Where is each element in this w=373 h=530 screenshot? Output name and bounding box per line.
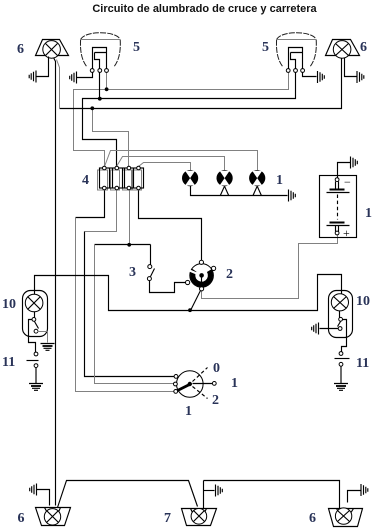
lamp 10R tail lamp unit (329, 291, 353, 338)
label 5 headlight 5L (133, 40, 140, 55)
wire fuse F1 to indicator lamp L3 (105, 151, 258, 171)
ground chassis lamp 7 (216, 485, 223, 497)
label 1 ignition switch (185, 404, 192, 419)
dimmer switch 2 rotary (186, 260, 216, 291)
svg-text:2: 2 (226, 267, 233, 282)
svg-text:1: 1 (231, 376, 238, 391)
wire lamp 10L switch to pushbutton 11L (29, 320, 36, 353)
wire lamp 6TL gray drop to bus3 (57, 60, 60, 109)
indicator lamp L3 (249, 170, 265, 186)
label + battery positive (343, 226, 350, 240)
junction right-terminal/bus1 (105, 87, 109, 91)
svg-text:2: 2 (212, 393, 219, 408)
svg-text:6: 6 (17, 42, 24, 57)
wire battery positive to dimmer switch 2 bottom (202, 235, 338, 299)
label 7 lamp 7 (164, 511, 171, 526)
wire headlight 5L middle terminal drop (99, 73, 101, 99)
wire dimmer switch 2 bottom diagonal to lamp10 bus (191, 289, 202, 311)
wire pushbutton 11L to ground (35, 368, 37, 384)
wire battery negative to ground (338, 163, 351, 178)
wire lamp 6BL to ground (37, 490, 50, 506)
wire indicator lamps common to ground (191, 186, 288, 196)
ground chassis headlight 5R (318, 71, 325, 83)
wire bus3 position lamps (lamp 6TL to lamp 6TR) (60, 59, 342, 109)
ignition light switch 1 (174, 368, 217, 399)
svg-text:1: 1 (185, 404, 192, 419)
svg-text:1: 1 (276, 173, 283, 188)
lamp 6TL front position lamp (36, 40, 69, 59)
svg-text:4: 4 (82, 173, 89, 188)
switch 3 (147, 265, 154, 281)
junction F3/node (127, 243, 131, 247)
wire lamp 6TL to ground (37, 57, 49, 77)
wire headlight 5R to ground (303, 73, 317, 77)
svg-text:5: 5 (262, 40, 269, 55)
wire node to switch 3 (150, 245, 152, 265)
wire lamp 10L switch to ground (38, 332, 48, 343)
wire bus1 high-beam (left feed to fuse F1, right to headlight 5R) (74, 73, 289, 167)
label 1 indicator lamps (276, 173, 283, 188)
ground chassis indicator lamps (289, 190, 296, 202)
lamp 6TR front position lamp (326, 40, 360, 59)
label 1 ignition position 1 (231, 376, 238, 391)
wire headlight 5L to ground (77, 73, 93, 78)
junction bus3/F3 (90, 106, 94, 110)
label 4 fuse box (82, 173, 89, 188)
headlight 5L twin-filament (80, 33, 120, 73)
wire fuse F1 bottom to ignition switch terminal 3 (76, 190, 174, 392)
ground chassis lamp 6TR (357, 71, 364, 83)
label 1 battery (365, 206, 372, 221)
wire fuse F4 bottom to dimmer switch 2 top (139, 190, 202, 261)
svg-text:5: 5 (133, 40, 140, 55)
svg-text:1: 1 (365, 206, 372, 221)
label - battery negative (344, 175, 351, 189)
svg-text:7: 7 (164, 511, 171, 526)
svg-text:11: 11 (356, 356, 369, 371)
lamp 10L tail lamp unit (23, 291, 48, 337)
wire lamp 7 right feed (203, 481, 205, 509)
wire fuse F2 to indicator lamp L2 (117, 157, 225, 171)
label 11 pushbutton 11R (356, 356, 369, 371)
svg-text:10: 10 (2, 297, 16, 312)
wire lamp10 bus (lamp 10L to lamp 10R) (35, 275, 342, 311)
indicator lamp L1 (182, 170, 198, 186)
svg-text:6: 6 (309, 511, 316, 526)
label 6 lamp 6BR (309, 511, 316, 526)
label 3 switch (129, 265, 136, 280)
junction diag/lamp10 bus (188, 308, 192, 312)
title (92, 3, 317, 15)
junction middle-terminal/bus2 (98, 97, 102, 101)
svg-text:10: 10 (356, 294, 370, 309)
wire bottom bus right segment (204, 481, 340, 509)
label 2 dimmer switch (226, 267, 233, 282)
wire lamp 6BR to ground (348, 491, 361, 503)
svg-text:11: 11 (2, 355, 15, 370)
lamp 7 licence plate lamp (182, 509, 217, 526)
ground earth pushbutton 11R (334, 384, 348, 391)
headlight 5R twin-filament (276, 33, 316, 73)
label 0 ignition position 0 (213, 361, 220, 376)
wire bus3 to fuse F3 (93, 109, 129, 167)
wire bottom bus left segment (58, 481, 198, 508)
wire fuse F3 bottom drop (129, 190, 131, 245)
wire lamp 7 to ground (204, 490, 215, 492)
pushbutton 11R (335, 352, 350, 367)
svg-text:6: 6 (360, 40, 367, 55)
label 11 pushbutton 11L (2, 355, 15, 370)
label 10 lamp 10L (2, 297, 16, 312)
label 6 lamp 6TR (360, 40, 367, 55)
wire switch 3 to dimmer switch 2 left terminal (150, 281, 186, 293)
indicator lamp L2 (217, 170, 233, 186)
wire bus2 low-beam (left feed to fuse F2, right to headlight 5R) (83, 73, 296, 167)
ground chassis lamp 6BR (361, 484, 368, 496)
wire lamp 6TL black feed down to lamp 6BL (54, 58, 56, 506)
ground earth pushbutton 11L (29, 384, 43, 391)
label 6 lamp 6TL (17, 42, 24, 57)
ground chassis lamp 10R (312, 323, 319, 335)
battery 1 (320, 176, 357, 238)
wire pushbutton 11R to ground (340, 367, 342, 384)
wire lamp 6TR to ground (345, 58, 357, 77)
svg-text:Circuito de alumbrado de cruce: Circuito de alumbrado de cruce y carrete… (92, 3, 317, 15)
wire lamp 10R switch to ground (320, 328, 339, 330)
svg-text:0: 0 (213, 361, 220, 376)
ground chassis battery (351, 157, 358, 169)
lamp 6BR rear position lamp (329, 508, 363, 527)
ground chassis lamp 6TL (29, 71, 36, 83)
svg-text:+: + (343, 226, 350, 240)
svg-text:3: 3 (129, 265, 136, 280)
label 6 lamp 6BL (18, 511, 25, 526)
wire fuse F4 to indicator lamp L1 (139, 163, 191, 171)
svg-text:−: − (344, 175, 351, 189)
label 10 lamp 10R (356, 294, 370, 309)
wire lamp 10R switch to pushbutton 11R (342, 320, 347, 352)
wire headlight 5L right terminal drop (106, 73, 108, 90)
wire fuse F2 bottom to ignition switch terminal 1 (85, 190, 175, 377)
svg-text:6: 6 (18, 511, 25, 526)
label 2 ignition position 2 (212, 393, 219, 408)
ground earth lamp 10L (41, 344, 55, 351)
pushbutton 11L (27, 352, 39, 367)
ground chassis lamp 6BL (30, 484, 37, 496)
wire node to ignition switch terminal 2 (95, 245, 174, 384)
ground chassis headlight 5L (70, 72, 77, 84)
lamp 6BL rear position lamp (36, 508, 71, 526)
label 5 headlight 5R (262, 40, 269, 55)
fuse box 4 (98, 166, 144, 190)
